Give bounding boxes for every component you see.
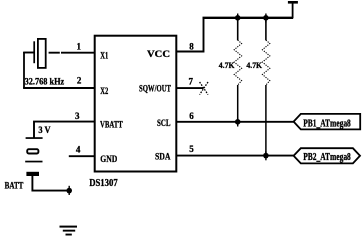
svg-text:PB1_ATmega8: PB1_ATmega8 [303,118,351,129]
wire pin 2 [23,87,95,89]
crystal Y1 body [38,39,46,68]
no-connect X on SQW/OUT [200,82,208,95]
battery BT1 plate 2 hollow [27,149,38,153]
svg-text:X2: X2 [100,87,108,97]
wire VCC rail [203,17,294,19]
svg-text:X1: X1 [100,52,108,62]
svg-text:SQW/OUT: SQW/OUT [139,85,171,95]
resistor R1 4.7K [234,18,241,122]
svg-text:VBATT: VBATT [100,120,123,130]
svg-text:4.7K: 4.7K [246,61,262,70]
svg-text:3 V: 3 V [38,125,51,135]
crystal Y1 left electrode [33,41,35,63]
wire pin 7 SQW/OUT [176,87,203,89]
junction R1 top on rail [235,14,241,23]
battery BT1 plate 1 [26,137,43,139]
op-amp U1 DS1307 body [95,36,177,172]
svg-text:7: 7 [189,77,194,87]
svg-text:4.7K: 4.7K [219,61,235,70]
wire crystal right lead to pin 1 [49,52,95,54]
svg-text:SDA: SDA [155,153,171,163]
svg-text:8: 8 [189,42,194,52]
wire pin 4 GND stub [69,155,95,157]
svg-text:SCL: SCL [157,119,171,129]
battery BT1 plate 4 [26,172,39,176]
svg-text:GND: GND [100,155,117,165]
svg-text:32.768 kHz: 32.768 kHz [25,77,65,87]
svg-text:BATT: BATT [5,182,24,192]
battery BT1 plate 3 [25,161,42,163]
junction R2 bottom on SDA [263,151,269,160]
svg-text:5: 5 [189,144,194,154]
resistor R2 4.7K [262,18,269,156]
power VCC symbol [288,1,298,18]
wire SDA net [176,155,293,157]
wire battery negative lead [32,176,69,191]
junction R2 top on rail [263,14,269,23]
wire crystal left lead [23,52,34,54]
svg-text:2: 2 [77,75,82,85]
svg-text:VCC: VCC [147,50,170,60]
wire pin 8 VCC [176,18,203,52]
ground symbol [60,226,78,236]
svg-text:3: 3 [75,111,80,121]
port PB2_ATmega8 (SDA) [294,148,360,163]
svg-text:6: 6 [189,111,194,121]
svg-text:1: 1 [77,42,82,52]
junction R1 bottom on SCL [235,118,241,127]
wire pin 3 VBATT [34,122,95,138]
junction battery to ground node [66,186,72,195]
svg-text:4: 4 [76,145,81,155]
svg-text:PB2_ATmega8: PB2_ATmega8 [303,152,351,163]
svg-text:DS1307: DS1307 [89,178,118,189]
wire SCL net [176,121,293,123]
port PB1_ATmega8 (SCL) [294,114,361,129]
wire left vertical X1 loop [23,52,25,88]
